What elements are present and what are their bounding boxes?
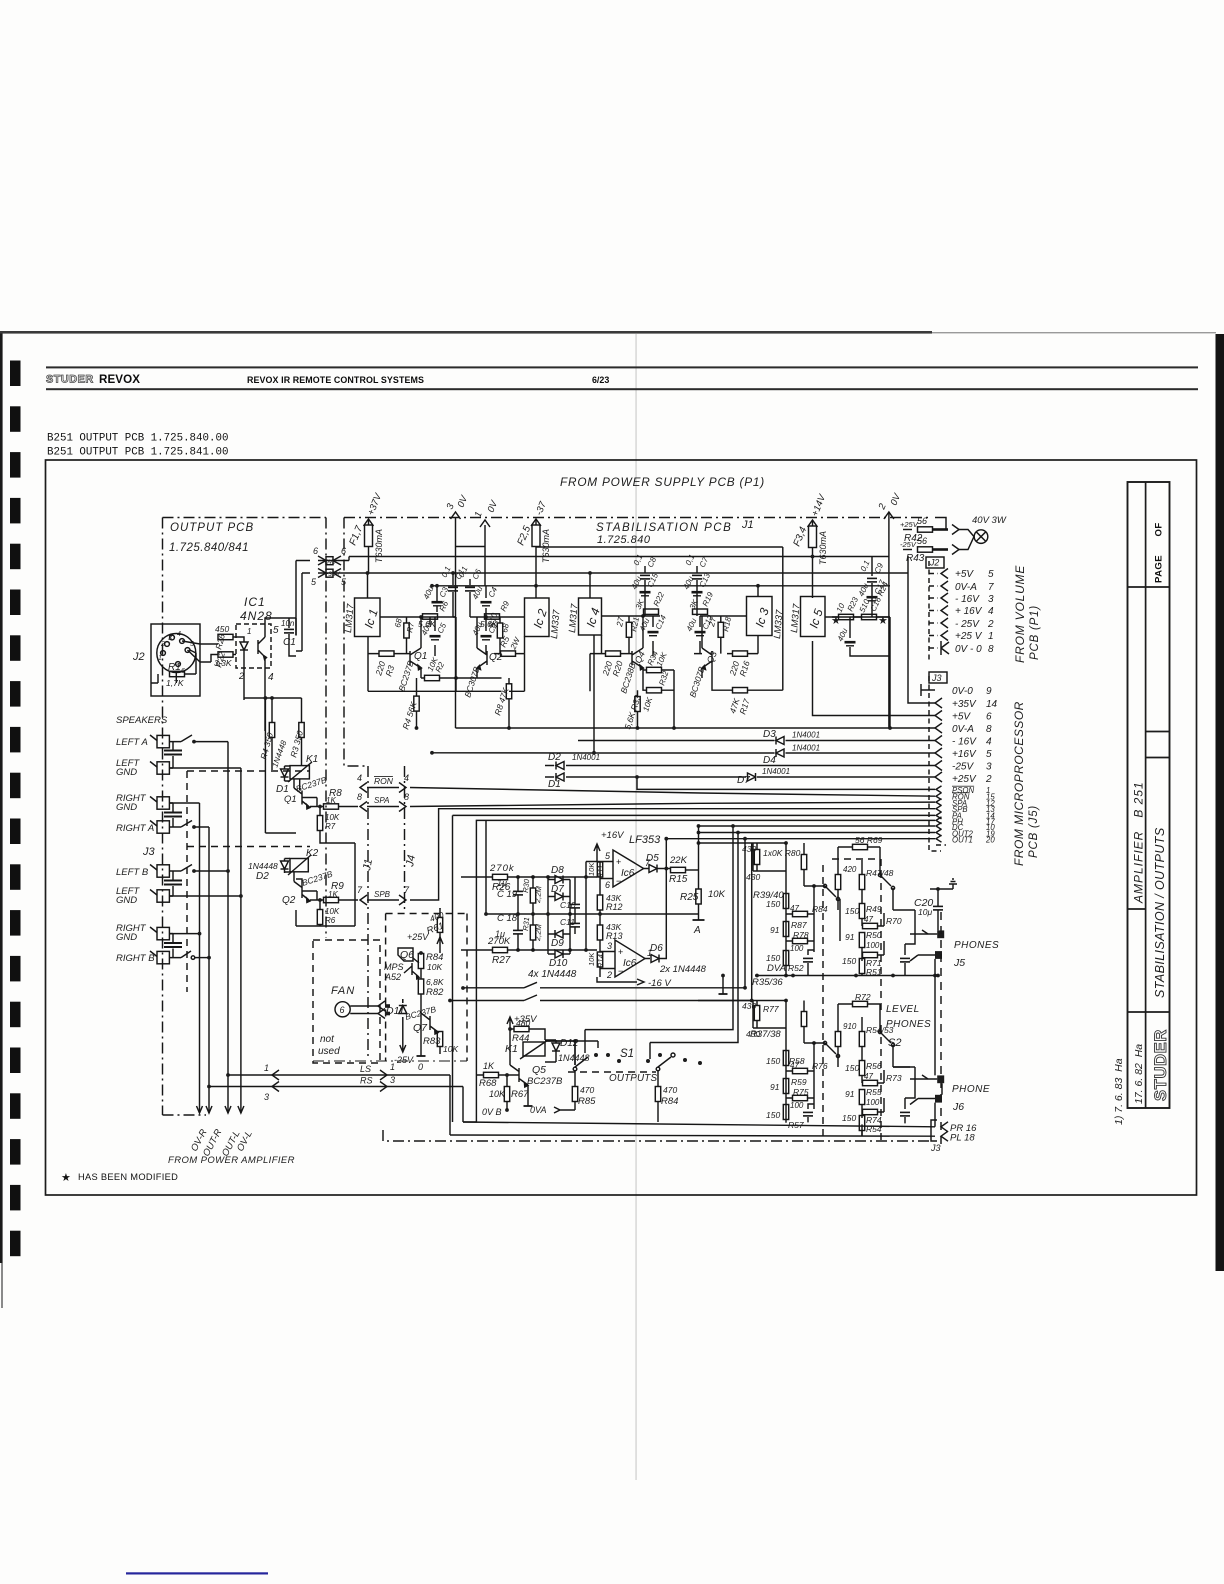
svg-text:J6: J6	[952, 1101, 964, 1113]
svg-text:40u: 40u	[630, 574, 644, 590]
PSON bus wire	[637, 777, 935, 789]
wire +16V rail left extension	[432, 752, 578, 754]
svg-text:J1: J1	[361, 858, 375, 873]
svg-text:R19: R19	[701, 590, 716, 608]
svg-text:1N4001: 1N4001	[572, 753, 600, 762]
0V top arrow b	[473, 498, 501, 527]
svg-text:430: 430	[742, 844, 756, 854]
resistor R22	[213, 651, 236, 669]
svg-text:C4: C4	[487, 585, 500, 599]
scan fold line	[636, 334, 637, 1480]
svg-text:R70: R70	[886, 916, 902, 926]
svg-text:R56: R56	[866, 1061, 882, 1071]
+16V feed opamp	[594, 830, 661, 862]
svg-text:PCB (J5): PCB (J5)	[1028, 805, 1040, 858]
svg-text:150: 150	[842, 1113, 856, 1123]
wires regulator cluster C	[590, 588, 674, 728]
svg-text:R30: R30	[521, 878, 531, 893]
output pcb boundary dash-dot top	[163, 517, 327, 519]
mute rail b	[450, 995, 752, 1001]
relay K1b	[505, 1040, 548, 1059]
J2 pin arrows	[941, 569, 949, 656]
svg-text:-25V: -25V	[900, 540, 917, 549]
transistor Q2	[462, 648, 502, 699]
svg-text:1.725.840: 1.725.840	[597, 534, 651, 546]
svg-text:3: 3	[986, 762, 992, 773]
svg-text:3: 3	[445, 501, 457, 511]
svg-text:-25V: -25V	[952, 762, 974, 773]
J3 label box	[929, 672, 947, 683]
attenuator network upper-left	[699, 843, 841, 976]
svg-text:10K: 10K	[443, 1044, 458, 1054]
regulator IC2 box	[470, 586, 563, 639]
resistor R3 350	[288, 698, 305, 766]
transistor Q5	[505, 1029, 563, 1100]
svg-text:1N4448: 1N4448	[248, 861, 278, 871]
opto LED	[236, 637, 248, 668]
svg-text:4: 4	[404, 773, 409, 783]
svg-text:PL 18: PL 18	[950, 1133, 975, 1144]
transistor Q7	[404, 1004, 438, 1034]
svg-text:1: 1	[158, 655, 162, 662]
svg-text:470: 470	[580, 1085, 594, 1095]
Q6 label box	[384, 948, 414, 982]
regulator IC1 box	[343, 571, 456, 636]
svg-text:150: 150	[766, 953, 780, 963]
svg-text:R84: R84	[661, 1096, 678, 1107]
FAN dashed box	[313, 940, 380, 1063]
svg-text:OUTPUT PCB: OUTPUT PCB	[170, 522, 254, 534]
diode D12	[545, 1038, 590, 1063]
phone jack J6	[910, 1075, 990, 1113]
svg-text:C10: C10	[560, 900, 576, 910]
svg-text:Q2: Q2	[282, 895, 296, 906]
svg-text:9: 9	[986, 686, 992, 697]
svg-text:40u: 40u	[685, 616, 699, 632]
wires regulator cluster E	[813, 573, 891, 728]
svg-text:-25V: -25V	[394, 1055, 414, 1065]
svg-text:Q1: Q1	[284, 794, 297, 805]
title block frame	[1128, 482, 1170, 1108]
diode D2 relay	[248, 859, 290, 883]
svg-text:4: 4	[357, 773, 362, 783]
J2 pin labels	[955, 569, 994, 655]
resistor R3 220	[373, 651, 396, 678]
outer schematic border	[46, 460, 1197, 1195]
svg-text:used: used	[318, 1046, 340, 1057]
svg-text:1μ: 1μ	[497, 878, 507, 888]
caps cluster C	[632, 553, 659, 588]
svg-text:R32: R32	[657, 669, 670, 686]
svg-text:1N4448: 1N4448	[270, 739, 288, 769]
transistor Q1 relay	[284, 775, 342, 809]
svg-text:+35V: +35V	[952, 699, 977, 710]
pcb dashed vertical	[186, 771, 188, 992]
svg-text:3: 3	[168, 635, 172, 642]
svg-text:1K: 1K	[483, 1061, 495, 1071]
svg-text:PHONE: PHONE	[952, 1084, 990, 1095]
svg-text:5: 5	[986, 749, 992, 760]
attenuator network lower-left	[698, 1001, 840, 1131]
speaker terminal RIGHT A	[116, 821, 169, 835]
S1 pole left	[545, 1041, 598, 1086]
speaker terminal LEFT GND	[116, 758, 169, 778]
speaker terminal RIGHT GND B	[116, 923, 169, 943]
svg-text:10K: 10K	[641, 696, 654, 713]
svg-text:3: 3	[390, 1075, 395, 1085]
svg-text:RIGHT A: RIGHT A	[116, 823, 154, 834]
svg-text:IC1: IC1	[244, 595, 266, 609]
svg-text:MPS: MPS	[384, 962, 404, 972]
svg-text:R43: R43	[906, 553, 925, 564]
svg-text:R67: R67	[511, 1089, 529, 1100]
OUT1 bus wire	[666, 838, 935, 840]
svg-text:10μ: 10μ	[918, 907, 932, 917]
transistor Q2 relay	[282, 869, 344, 906]
resistor 2,2M lower	[521, 914, 543, 950]
svg-text:R6: R6	[325, 916, 336, 925]
svg-text:+5V: +5V	[955, 569, 974, 580]
svg-text:B251 OUTPUT PCB 1.725.841.00: B251 OUTPUT PCB 1.725.841.00	[47, 447, 228, 459]
title block divider full y1012	[1128, 1011, 1170, 1013]
svg-text:BC307B: BC307B	[687, 665, 706, 699]
opto wires	[236, 618, 296, 731]
svg-text:J3: J3	[930, 1143, 941, 1153]
wires DIN to R26 R22	[182, 641, 218, 662]
svg-text:R75: R75	[793, 1087, 809, 1097]
svg-text:C6: C6	[471, 567, 484, 581]
svg-text:R26: R26	[213, 633, 227, 651]
S1 dashed link	[568, 1071, 656, 1073]
svg-text:R12: R12	[606, 902, 623, 912]
speaker coupling cap A	[164, 742, 182, 768]
svg-text:+5V: +5V	[952, 712, 971, 723]
caps cluster E	[859, 557, 886, 593]
speaker coupling cap RB	[164, 934, 182, 958]
svg-text:- 25V: - 25V	[955, 619, 980, 630]
J5 comb bottom bracket	[929, 845, 946, 851]
RON bus wire	[410, 788, 935, 797]
svg-text:100: 100	[866, 941, 880, 950]
opto transistor	[258, 624, 267, 668]
svg-text:20: 20	[985, 836, 995, 845]
J3 / J5 pin labels	[952, 686, 998, 785]
0VA ground arrow	[530, 1105, 575, 1115]
svg-text:GND: GND	[116, 932, 137, 943]
output pcb boundary dash-dot right	[325, 518, 327, 939]
resistor R83	[423, 1032, 458, 1055]
opamp input stubs	[586, 862, 600, 952]
svg-text:C11: C11	[560, 917, 575, 927]
svg-text:68: 68	[500, 622, 511, 633]
svg-text:Ic 4: Ic 4	[584, 606, 603, 629]
svg-text:1N4448: 1N4448	[558, 1053, 590, 1063]
DC bus wire	[699, 825, 936, 827]
svg-text:R85: R85	[578, 1096, 596, 1107]
svg-text:10n: 10n	[281, 619, 295, 628]
svg-text:OUTPUTS: OUTPUTS	[609, 1073, 657, 1084]
svg-text:D3: D3	[763, 729, 776, 740]
svg-text:0V-0: 0V-0	[952, 686, 973, 697]
svg-text:R77: R77	[763, 1004, 779, 1014]
svg-text:R73: R73	[886, 1073, 902, 1083]
binder hole marks	[10, 361, 21, 1257]
svg-text:47: 47	[864, 915, 873, 924]
diode D7	[748, 773, 756, 781]
svg-text:420: 420	[843, 865, 857, 874]
svg-text:R87: R87	[791, 920, 807, 930]
resistor R61 400	[425, 908, 445, 940]
0VB ground	[482, 1100, 533, 1117]
PA bus wire	[453, 815, 936, 1122]
resistor R11 10K	[587, 862, 605, 878]
svg-text:R61: R61	[425, 921, 445, 937]
bottom arrowheads OV-R etc	[197, 1106, 244, 1113]
svg-text:+35V: +35V	[325, 571, 341, 578]
svg-text:40V 3W: 40V 3W	[972, 515, 1007, 526]
svg-text:910: 910	[843, 1022, 857, 1031]
svg-text:R3: R3	[383, 664, 396, 678]
svg-text:FROM MICROPROCESSOR: FROM MICROPROCESSOR	[1012, 701, 1026, 866]
svg-text:6: 6	[340, 1005, 345, 1015]
cap C5	[420, 620, 449, 639]
cap C19	[497, 877, 523, 914]
svg-text:10K: 10K	[325, 907, 340, 916]
mute rail a	[463, 982, 745, 988]
svg-text:0VA: 0VA	[530, 1105, 547, 1115]
0V top arrow c	[876, 491, 904, 557]
svg-text:R84: R84	[812, 904, 828, 914]
long vertical OUT1 to mute rail	[744, 839, 746, 988]
svg-text:R82: R82	[426, 987, 444, 998]
svg-text:10K: 10K	[587, 952, 596, 966]
svg-text:OUT1: OUT1	[952, 836, 973, 845]
resistor R25 10K	[680, 870, 726, 936]
svg-text:3: 3	[988, 594, 994, 605]
svg-text:2: 2	[238, 671, 244, 681]
resistor R5	[498, 635, 523, 657]
svg-text:RON: RON	[374, 776, 394, 786]
resistor R67 10K	[489, 1073, 529, 1110]
svg-text:R51: R51	[866, 967, 882, 977]
ribbon connector +35V arrows	[302, 569, 349, 588]
left page edge scan line	[0, 333, 3, 1263]
svg-text:100: 100	[790, 1101, 804, 1110]
svg-text:1N4001: 1N4001	[762, 767, 790, 776]
svg-text:R49: R49	[866, 904, 882, 914]
resistor R7 10K	[317, 805, 355, 843]
svg-text:F2,5: F2,5	[516, 524, 534, 547]
attenuator network lower-right	[835, 992, 928, 1136]
svg-text:150: 150	[845, 906, 859, 916]
svg-text:K2: K2	[306, 848, 319, 859]
svg-text:J5: J5	[953, 957, 965, 969]
svg-text:Ic 5: Ic 5	[807, 607, 826, 630]
junction dots on rails	[415, 726, 419, 730]
svg-text:40u: 40u	[836, 626, 850, 642]
diode D6	[650, 839, 707, 975]
diode D10	[528, 950, 577, 980]
svg-text:3: 3	[607, 941, 612, 951]
svg-text:S1: S1	[620, 1048, 634, 1060]
switch RIGHT A	[173, 821, 209, 828]
svg-text:6: 6	[313, 546, 318, 556]
svg-text:C8: C8	[646, 555, 659, 569]
svg-text:91: 91	[845, 1089, 855, 1099]
svg-text:150: 150	[766, 899, 780, 909]
resistor R7a 68	[393, 617, 416, 638]
title block right-col small cell	[1146, 731, 1170, 733]
diode D11	[386, 999, 414, 1065]
DIN connector J2 outline	[151, 624, 200, 696]
svg-text:LM337: LM337	[549, 609, 563, 640]
SPB bus wire	[418, 809, 935, 900]
cap C3 40u	[422, 584, 451, 612]
svg-text:FROM VOLUME: FROM VOLUME	[1013, 565, 1027, 663]
svg-text:R52: R52	[788, 963, 804, 973]
svg-text:J2: J2	[929, 558, 939, 568]
svg-text:3,3K: 3,3K	[214, 658, 232, 668]
svg-text:J3: J3	[931, 673, 942, 683]
svg-text:T630mA: T630mA	[374, 529, 384, 563]
S2 dashed box	[823, 859, 881, 1141]
scan top edge line	[0, 331, 932, 334]
box bottom wire PR net	[463, 1122, 935, 1127]
svg-text:R83: R83	[423, 1036, 441, 1047]
cap C1a 0,1	[440, 565, 466, 599]
PR PL bracket	[930, 1120, 977, 1153]
svg-text:SPA: SPA	[374, 796, 389, 805]
svg-text:Ic6: Ic6	[621, 868, 635, 879]
SPB arrow pair	[357, 885, 418, 905]
svg-text:4: 4	[177, 631, 181, 638]
PH bus wire / big box	[463, 820, 935, 1122]
pcb dashed horizontal b	[187, 846, 310, 848]
svg-text:A52: A52	[384, 972, 401, 982]
svg-text:STABILISATION / OUTPUTS: STABILISATION / OUTPUTS	[1153, 827, 1167, 998]
svg-text:LEFT B: LEFT B	[116, 867, 149, 878]
output pcb boundary dash-dot left	[162, 518, 164, 1116]
transistor Q3	[687, 648, 718, 699]
resistor R1	[166, 650, 196, 688]
stabilisation pcb boundary dash-dot left	[344, 518, 368, 767]
bottom blue pen line	[126, 1572, 268, 1574]
svg-text:4: 4	[986, 737, 992, 748]
resistor R4 350	[258, 698, 275, 770]
diode D2	[556, 762, 564, 770]
svg-text:470: 470	[663, 1085, 677, 1095]
svg-text:+: +	[616, 857, 621, 867]
svg-text:Ic 2: Ic 2	[531, 607, 550, 630]
svg-text:GND: GND	[116, 767, 137, 778]
relay loop wires	[265, 833, 355, 926]
svg-text:6: 6	[986, 712, 992, 723]
svg-text:10K: 10K	[489, 1089, 506, 1099]
svg-text:4: 4	[988, 606, 994, 617]
svg-text:4x 1N4448: 4x 1N4448	[528, 969, 577, 980]
switch LEFT B	[173, 865, 228, 872]
svg-text:Ic 1: Ic 1	[362, 607, 381, 630]
svg-text:RIGHT B: RIGHT B	[116, 953, 155, 964]
svg-text:5: 5	[605, 851, 611, 861]
svg-text:R14: R14	[596, 954, 605, 968]
rail y585.8	[432, 585, 890, 587]
svg-text:+25V: +25V	[900, 520, 919, 529]
svg-text:D9: D9	[551, 938, 564, 949]
svg-text:F1,7: F1,7	[348, 524, 366, 547]
relay K2	[288, 848, 319, 875]
SPA arrow pair	[357, 792, 409, 812]
svg-text:C 18: C 18	[497, 913, 518, 924]
svg-text:1,7K: 1,7K	[166, 678, 184, 688]
svg-text:FROM POWER SUPPLY PCB (P1): FROM POWER SUPPLY PCB (P1)	[560, 475, 765, 489]
svg-text:- 16V: - 16V	[952, 737, 977, 748]
svg-text:LF353: LF353	[629, 834, 661, 846]
svg-text:+14V: +14V	[810, 492, 829, 518]
S1 contact dots	[594, 1053, 702, 1065]
svg-text:6: 6	[341, 546, 346, 556]
resistor R44 480	[512, 1018, 530, 1044]
svg-text:Ic6: Ic6	[623, 958, 637, 969]
svg-text:D1: D1	[548, 779, 561, 790]
svg-text:D6: D6	[650, 943, 663, 954]
svg-text:2: 2	[987, 619, 994, 630]
svg-text:1N4001: 1N4001	[792, 731, 820, 740]
long vertical OUT2 to S1	[650, 833, 738, 1060]
svg-text:C5: C5	[436, 621, 449, 635]
svg-text:STUDER: STUDER	[46, 374, 94, 386]
resistor 2,2M upper	[521, 877, 543, 914]
long vertical DC to S1	[585, 826, 733, 1053]
svg-text:D11: D11	[386, 1005, 404, 1017]
svg-text:5: 5	[311, 577, 317, 587]
svg-text:T630mA: T630mA	[541, 529, 551, 563]
svg-text:56 R69: 56 R69	[855, 835, 883, 845]
speaker terminal RIGHT GND	[116, 793, 169, 813]
SPA bus wire	[410, 802, 935, 806]
resistor R8 1K	[310, 804, 358, 809]
fan motor	[335, 1001, 390, 1019]
svg-text:+16V: +16V	[952, 749, 977, 760]
resistor R17 47K	[727, 688, 751, 716]
svg-text:C1: C1	[283, 637, 296, 648]
svg-text:J3: J3	[142, 846, 156, 858]
+25V bus wire with D1 D7	[545, 776, 935, 778]
svg-text:+25V: +25V	[407, 932, 429, 942]
svg-text:GND: GND	[116, 802, 137, 813]
svg-text:8: 8	[988, 644, 994, 655]
resistor R26 270K	[461, 863, 597, 893]
0V-A vertical from top arrow	[456, 518, 486, 729]
svg-text:0: 0	[418, 1062, 423, 1072]
svg-text:68: 68	[393, 617, 404, 628]
wire bottom cluster to PR	[786, 1120, 905, 1136]
svg-text:BC237B: BC237B	[527, 1076, 563, 1087]
wire regulator bottom rail left	[368, 690, 456, 692]
svg-text:Q6: Q6	[400, 949, 414, 961]
svg-text:150: 150	[766, 1056, 780, 1066]
svg-text:LEFT A: LEFT A	[116, 737, 148, 748]
svg-text:2x 1N4448: 2x 1N4448	[659, 964, 707, 975]
diode D8	[548, 865, 570, 884]
svg-text:5: 5	[988, 569, 994, 580]
svg-text:D7: D7	[737, 775, 750, 786]
svg-text:FROM POWER AMPLIFIER: FROM POWER AMPLIFIER	[168, 1155, 295, 1166]
diode D1 relay	[270, 739, 288, 795]
resistor R16 220	[727, 651, 752, 678]
svg-text:R59: R59	[791, 1077, 807, 1087]
wire from ribbon to opto	[296, 561, 302, 652]
